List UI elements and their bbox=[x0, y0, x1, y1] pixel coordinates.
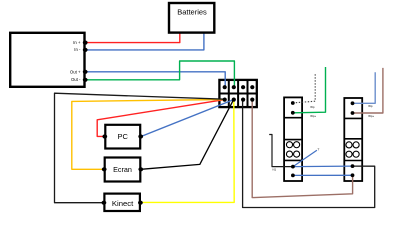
wire blue relay2 dot1 stub bbox=[353, 72, 376, 103]
node Ecran right bbox=[138, 167, 143, 171]
svg-text:N1: N1 bbox=[273, 168, 277, 172]
box Ecran bbox=[102, 158, 143, 182]
svg-text:Wp+: Wp+ bbox=[310, 114, 316, 118]
node U1 bot2 bbox=[291, 174, 295, 178]
node In+ bbox=[83, 41, 88, 45]
svg-text:In +: In + bbox=[73, 40, 81, 45]
node U2 top2 bbox=[351, 111, 355, 115]
node U2 top1 bbox=[351, 101, 355, 105]
node PC right bbox=[138, 134, 143, 138]
wire red terminal col1 bottom to PC left bbox=[97, 100, 225, 137]
node col1 bottom bbox=[223, 98, 227, 102]
wire black loop terminal col1 bottom to Kinect left bbox=[55, 93, 225, 203]
contact circles U2 bbox=[346, 142, 352, 148]
node Kinect left bbox=[102, 201, 107, 205]
wire green relay1 dot2 stub bbox=[293, 67, 326, 113]
node col4 bottom bbox=[250, 98, 254, 102]
wire blue stub from relay1 dot1 bbox=[293, 150, 317, 166]
box Kinect bbox=[102, 194, 143, 211]
node U2 bot1 bbox=[351, 164, 355, 168]
node PC left bbox=[102, 134, 107, 138]
wire blue battery to In- bbox=[85, 33, 204, 50]
relay U1 dots and labels bbox=[273, 101, 317, 177]
wire yellow terminal col2 bottom to Kinect right bbox=[141, 100, 235, 202]
wire black terminal col2 bottom to Ecran right bbox=[141, 100, 234, 170]
node Ecran left bbox=[102, 167, 107, 171]
contact circles U1 bbox=[286, 142, 292, 148]
node Out- bbox=[83, 78, 88, 82]
wire red battery to In+ bbox=[85, 33, 180, 43]
relay U1 body bbox=[284, 97, 302, 181]
box PC bbox=[102, 125, 143, 149]
svg-text:Batteries: Batteries bbox=[177, 8, 207, 17]
node U2 bot2 bbox=[351, 173, 355, 177]
wire blue terminal col2 bottom to PC right bbox=[141, 100, 234, 137]
node U1 top1 bbox=[291, 101, 295, 105]
svg-text:Out -: Out - bbox=[71, 77, 81, 82]
terminal block dots bbox=[223, 85, 255, 102]
svg-text:In -: In - bbox=[74, 47, 81, 52]
terminal block body bbox=[219, 80, 256, 107]
wire brown terminal col4 bottom to relay2 bottom dot2 bbox=[252, 100, 352, 198]
box Batteries bbox=[169, 3, 214, 33]
wire blue relay1 dot1 to relay2 dot1 bbox=[293, 165, 353, 168]
node col2 top bbox=[232, 85, 236, 89]
svg-text:?: ? bbox=[318, 148, 320, 152]
svg-text:Kinect: Kinect bbox=[112, 199, 134, 208]
svg-text:Out +: Out + bbox=[70, 69, 81, 74]
svg-text:Wp+: Wp+ bbox=[368, 114, 374, 118]
wire black terminal col3 bottom to relay2 bottom dot1 bbox=[243, 100, 375, 208]
relay U2 body bbox=[344, 98, 362, 181]
relay U2 dots and labels bbox=[351, 101, 375, 177]
svg-text:Wp: Wp bbox=[368, 104, 373, 108]
node col3 top bbox=[241, 85, 245, 89]
svg-text:PC: PC bbox=[117, 132, 128, 141]
node In- bbox=[83, 48, 88, 52]
box converter (left box) bbox=[10, 33, 87, 87]
wire blue relay1 dot2 to relay2 dot2 bbox=[293, 174, 353, 176]
node col4 top bbox=[250, 85, 254, 89]
node U1 bot1 bbox=[291, 165, 295, 169]
wire dotted relay1 dot1 stub bbox=[293, 74, 315, 103]
node col1 top bbox=[223, 85, 227, 89]
node Out+ bbox=[83, 70, 88, 74]
wire gold terminal col1 bottom to Ecran left bbox=[72, 100, 225, 170]
node col2 bottom bbox=[232, 98, 236, 102]
node U1 top2 bbox=[291, 111, 295, 115]
node Kinect right bbox=[138, 201, 143, 205]
wire brown relay2 dot2 stub bbox=[353, 68, 383, 113]
wire black stub to relay1 bottom dot1 bbox=[269, 135, 293, 167]
svg-text:Wp: Wp bbox=[310, 105, 315, 109]
svg-text:Ecran: Ecran bbox=[113, 165, 132, 174]
wire blue Out+ to terminal col1 top bbox=[85, 72, 225, 87]
node col3 bottom bbox=[241, 98, 245, 102]
wire green Out- to terminal col2 top bbox=[85, 61, 234, 87]
